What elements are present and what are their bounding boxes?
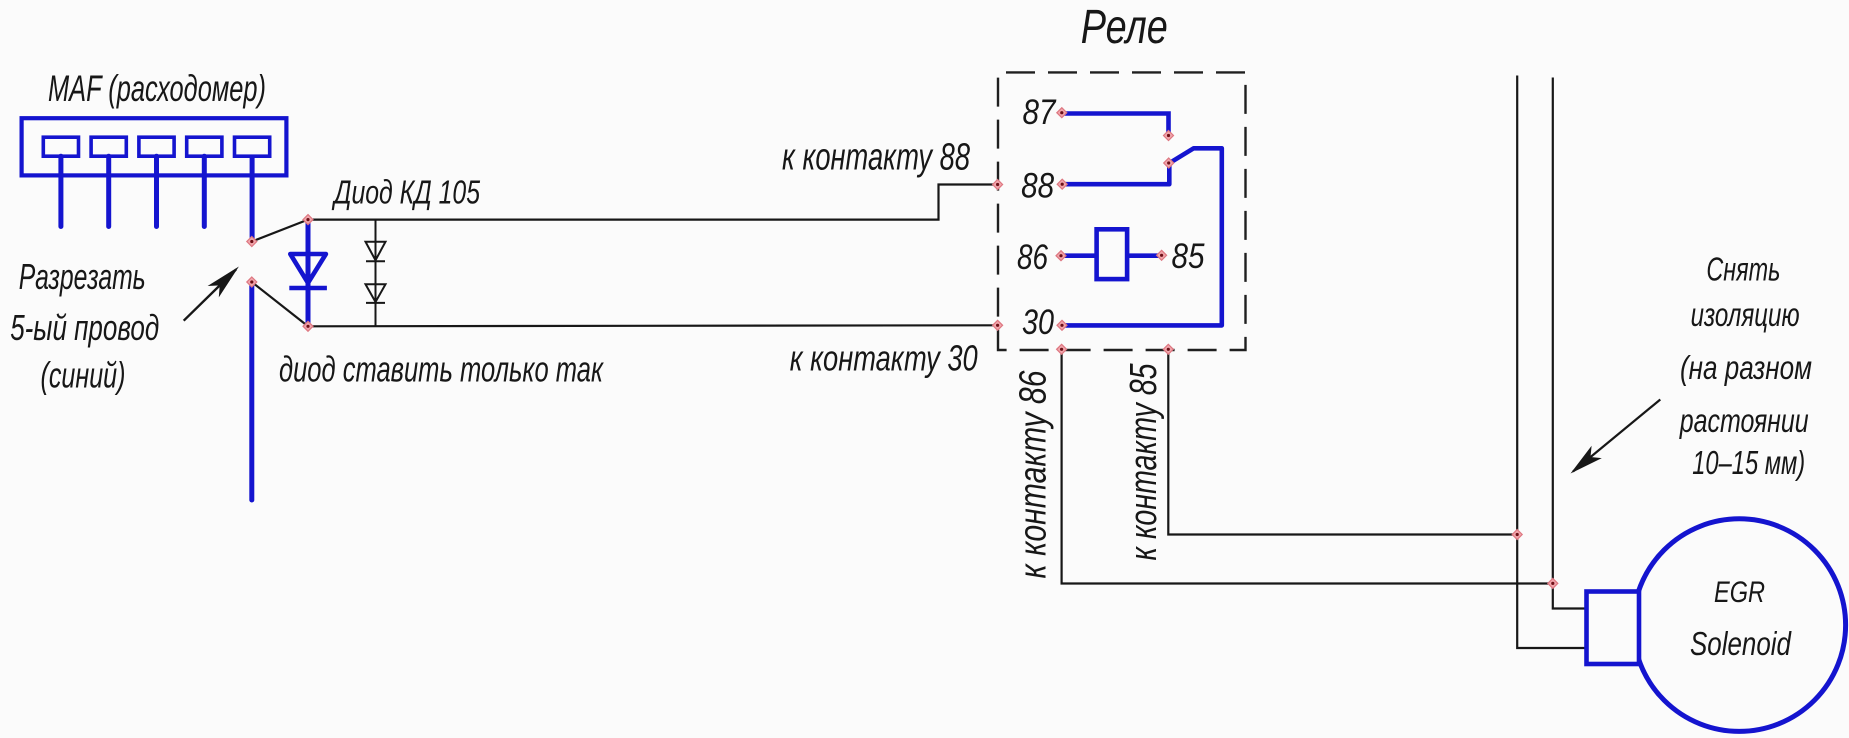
pin 5 box [235, 137, 270, 156]
wire contact 87 [1062, 114, 1169, 134]
wire to contact 86 (below relay) [1062, 349, 1553, 583]
pin 5 wire upper (blue, cut) [250, 156, 255, 239]
wire node2 to diode bottom [252, 282, 308, 326]
wire node1 to diode top [252, 220, 308, 242]
svg-text:86: 86 [1017, 238, 1048, 277]
svg-text:диод ставить только так: диод ставить только так [279, 349, 604, 390]
node 87 arm end [1164, 131, 1174, 141]
wire contact 88 + switch arm + contact 30 [1062, 148, 1222, 325]
node relay left 30 [993, 320, 1003, 330]
pin 4 wire [202, 156, 207, 226]
EGR wire A (left vertical) [1517, 76, 1586, 649]
node at pin5 cut top [247, 237, 257, 247]
svg-text:(синий): (синий) [41, 355, 126, 396]
node at pin5 cut bottom [247, 277, 257, 287]
branch wire for black diodes [375, 220, 377, 326]
arrow to stripped insulation [1573, 400, 1660, 472]
pin 5 wire lower (blue, cut) [249, 285, 254, 501]
svg-text:30: 30 [1022, 303, 1054, 342]
svg-text:85: 85 [1172, 237, 1205, 276]
node switch pivot [1164, 158, 1174, 168]
svg-text:изоляцию: изоляцию [1691, 296, 1800, 333]
arrow to cut point [184, 270, 236, 321]
svg-text:87: 87 [1023, 93, 1057, 132]
svg-text:к контакту 30: к контакту 30 [790, 337, 978, 378]
svg-text:Диод КД 105: Диод КД 105 [331, 174, 480, 211]
pin 1 wire [58, 156, 63, 226]
wire to contact 85 (below relay) [1168, 349, 1517, 534]
node relay bottom 86 [1057, 344, 1067, 354]
svg-text:Реле: Реле [1081, 1, 1168, 54]
wire to contact 88 [308, 185, 997, 220]
svg-text:(на разном: (на разном [1680, 349, 1812, 386]
node 87 [1057, 108, 1067, 118]
svg-text:5-ый провод: 5-ый провод [10, 307, 159, 348]
diode VD1 triangle [290, 254, 326, 283]
diode VD3 triangle [366, 284, 386, 302]
node wire85 to EGR line [1512, 530, 1522, 540]
pin 2 wire [106, 156, 111, 226]
node 30 [1057, 320, 1067, 330]
EGR wire B (right vertical) [1553, 78, 1586, 609]
node wire86 to EGR line [1548, 578, 1558, 588]
svg-text:к контакту 86: к контакту 86 [1013, 370, 1055, 579]
svg-text:MAF (расходомер): MAF (расходомер) [48, 68, 266, 109]
connector X1 MAF body [22, 118, 287, 175]
svg-text:к контакту 85: к контакту 85 [1123, 363, 1165, 561]
node 85 [1157, 250, 1167, 260]
EGR solenoid circle [1633, 519, 1846, 732]
relay K1 dashed box [998, 72, 1246, 350]
svg-text:Снять: Снять [1706, 251, 1780, 288]
diode VD1 (blue) lead [306, 220, 311, 327]
node relay bottom 85 [1163, 344, 1173, 354]
EGR connector box [1587, 592, 1640, 665]
node 86 [1056, 251, 1066, 261]
pin 2 box [91, 137, 126, 156]
diode VD3 cathode bar [366, 302, 385, 304]
svg-text:к контакту 88: к контакту 88 [782, 136, 970, 178]
relay coil [1097, 229, 1128, 279]
svg-text:88: 88 [1021, 167, 1054, 206]
wire to contact 30 [308, 325, 997, 326]
node 88 [1057, 179, 1067, 189]
diode VD2 cathode bar [366, 260, 385, 262]
svg-text:растоянии: растоянии [1679, 402, 1809, 439]
wire 86 to coil [1061, 253, 1097, 258]
diode VD1 cathode bar [289, 286, 327, 291]
svg-text:Разрезать: Разрезать [19, 256, 146, 297]
pin 1 box [43, 137, 78, 156]
diode VD2 triangle [366, 242, 386, 261]
node diode bottom [303, 321, 313, 331]
svg-text:Solenoid: Solenoid [1690, 625, 1792, 662]
svg-text:10–15 мм): 10–15 мм) [1692, 444, 1805, 481]
svg-text:EGR: EGR [1714, 576, 1765, 609]
pin 3 box [139, 137, 174, 156]
node relay left 88 [993, 180, 1003, 190]
pin 4 box [187, 137, 222, 156]
pin 3 wire [154, 156, 159, 226]
wire coil to 85 [1127, 253, 1162, 258]
node diode top [303, 215, 313, 225]
